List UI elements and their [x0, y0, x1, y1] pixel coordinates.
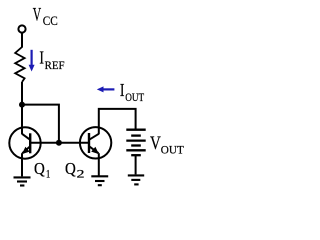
- junction node A: [19, 102, 25, 108]
- svg-text:2: 2: [77, 167, 85, 181]
- svg-text:Q: Q: [65, 159, 76, 178]
- label Q2: [65, 159, 85, 181]
- svg-text:V: V: [33, 5, 42, 26]
- wire (Q1 emitter to ground): [21, 153, 23, 176]
- svg-text:CC: CC: [43, 13, 58, 28]
- svg-text:I: I: [120, 80, 125, 100]
- svg-text:I: I: [39, 48, 44, 68]
- svg-text:OUT: OUT: [125, 90, 145, 104]
- wire (Q2 collector up and right to battery): [99, 109, 136, 134]
- transistor Q2: [80, 127, 111, 158]
- wire (resistor to node A): [21, 82, 23, 105]
- ground (Q1): [14, 177, 31, 185]
- transistor Q1: [9, 127, 40, 158]
- svg-text:V: V: [150, 133, 161, 154]
- label IREF: [39, 48, 64, 72]
- battery VOUT: [126, 130, 145, 156]
- ground (Q2): [91, 176, 108, 185]
- wire (terminal to resistor): [21, 33, 23, 48]
- svg-text:OUT: OUT: [161, 142, 185, 156]
- svg-text:1: 1: [46, 167, 50, 181]
- wire (node A down to Q1 collector): [21, 105, 23, 135]
- wire (collector-base tie: node A right and down to base node): [22, 105, 59, 143]
- label IOUT: [120, 80, 145, 104]
- junction node B (base rail): [56, 140, 62, 146]
- svg-text:Q: Q: [34, 159, 45, 178]
- wire (battery to ground): [135, 155, 137, 174]
- wire (Q2 emitter to ground): [98, 153, 100, 176]
- label Q1: [34, 159, 50, 181]
- wire (base rail Q1 to Q2): [30, 142, 89, 144]
- label VCC: [33, 5, 58, 28]
- resistor R: [15, 47, 24, 82]
- current arrow IOUT: [97, 86, 115, 92]
- label VOUT: [150, 133, 184, 156]
- ground (battery): [128, 175, 144, 184]
- svg-text:REF: REF: [45, 58, 65, 72]
- current arrow IREF: [29, 50, 35, 72]
- terminal VCC (open circle): [18, 25, 25, 32]
